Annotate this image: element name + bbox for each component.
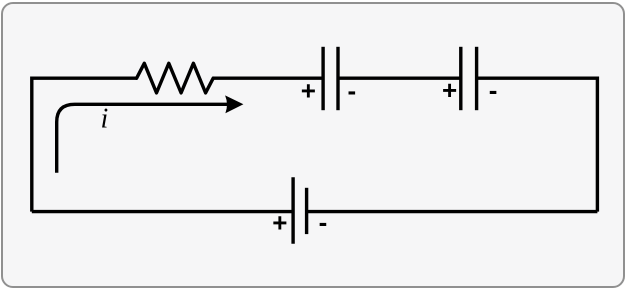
capacitor C1 <box>323 47 338 110</box>
wire C2 to right corner and down right side <box>477 78 598 211</box>
svg-text:+: + <box>301 76 316 106</box>
wire left side (node loop left) <box>32 78 137 211</box>
svg-text:-: - <box>489 75 498 105</box>
wire battery to bottom left <box>32 210 293 213</box>
capacitor C2 <box>461 47 477 110</box>
wire resistor to capacitor C1 <box>213 76 323 79</box>
svg-text:i: i <box>101 104 109 135</box>
current arrow i <box>57 104 229 173</box>
resistor R1 <box>137 63 214 93</box>
wire C1 to C2 <box>338 76 461 79</box>
svg-text:-: - <box>347 76 356 106</box>
svg-text:-: - <box>319 207 328 237</box>
svg-text:+: + <box>442 75 457 105</box>
battery V1 <box>293 177 307 244</box>
svg-text:+: + <box>272 207 287 237</box>
current arrow head <box>225 95 243 113</box>
wire bottom right to battery <box>307 210 598 213</box>
